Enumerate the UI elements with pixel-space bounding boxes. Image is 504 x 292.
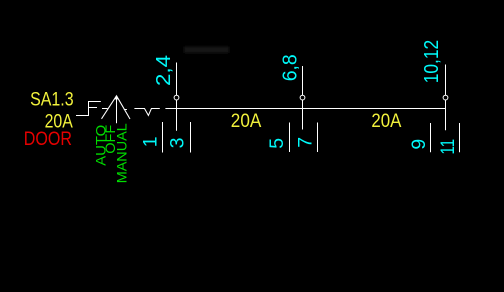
wire left stub [76, 115, 89, 117]
switch SA1.3 actuator arrowhead [114, 95, 118, 100]
main bus wire [165, 108, 445, 110]
svg-text:DOOR: DOOR [24, 128, 72, 150]
svg-text:11: 11 [437, 139, 459, 155]
detent latch symbol [88, 101, 101, 116]
pin 1 tick [162, 122, 164, 153]
switch SA1.3 right throw [117, 96, 131, 119]
terminal 10,12 upper lead [445, 65, 447, 96]
svg-text:MANUAL: MANUAL [114, 123, 130, 183]
switch SA1.3 left throw [102, 96, 117, 119]
svg-text:20A: 20A [231, 110, 261, 132]
svg-text:SA1.3: SA1.3 [30, 89, 74, 111]
svg-text:9: 9 [408, 139, 430, 150]
pin 5 tick [289, 123, 291, 153]
svg-text:20A: 20A [371, 110, 401, 132]
terminal 2,4 circle [174, 95, 179, 100]
terminal 2,4 lower lead [176, 100, 178, 131]
terminal 6,8 lower lead [302, 100, 304, 129]
terminal 6,8 circle [300, 95, 305, 100]
pin 7 tick [317, 123, 319, 153]
terminal 6,8 upper lead [302, 66, 304, 95]
switch SA1.3 actuator shaft [116, 97, 118, 123]
pin 9 tick [430, 123, 432, 152]
pin 3 tick [190, 122, 192, 153]
switch SA1.3 left contact tick [102, 108, 108, 110]
switch SA1.3 right contact tick [124, 109, 127, 111]
pin 11 tick [459, 123, 461, 152]
svg-text:5: 5 [266, 138, 288, 149]
svg-text:2,4: 2,4 [153, 55, 175, 86]
svg-text:6,8: 6,8 [280, 54, 302, 81]
svg-text:7: 7 [294, 137, 316, 148]
terminal 2,4 upper lead [176, 63, 178, 96]
wire with V notch to common contact [134, 109, 159, 116]
svg-text:1: 1 [139, 136, 161, 147]
svg-text:10,12: 10,12 [421, 40, 443, 84]
terminal 10,12 lower lead [445, 100, 447, 130]
svg-text:3: 3 [166, 138, 188, 149]
terminal 10,12 circle [443, 95, 448, 100]
